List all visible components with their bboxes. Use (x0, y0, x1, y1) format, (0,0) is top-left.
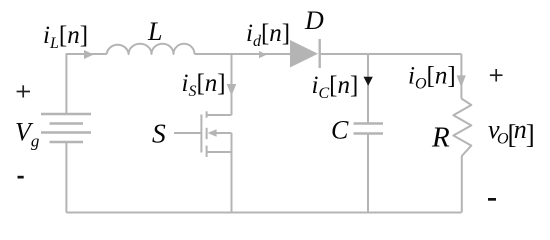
svg-text:iS[n]: iS[n] (182, 70, 226, 100)
wire MOSFET drain riser (231, 54, 233, 115)
drain stub (207, 114, 232, 116)
diode D cathode bar (319, 39, 321, 68)
svg-text:]: ] (526, 120, 535, 150)
svg-text:iO[n]: iO[n] (408, 63, 456, 93)
battery V_g plates (41, 114, 91, 142)
gate bar (200, 115, 202, 153)
wire capacitor top riser (367, 54, 369, 124)
svg-text:id[n]: id[n] (246, 20, 290, 50)
capacitor C plates (354, 124, 384, 134)
arrow current i_S (down) (227, 84, 237, 96)
polarity plus right (490, 69, 503, 82)
svg-text:iL[n]: iL[n] (43, 22, 88, 52)
wire inductor to diode anode (195, 53, 291, 55)
svg-text:R: R (431, 121, 450, 153)
arrow current i_L (right) (84, 50, 94, 59)
wire resistor top riser (460, 54, 462, 99)
resistor R zigzag (453, 99, 471, 213)
source channel tick (206, 146, 208, 157)
svg-text:D: D (304, 6, 324, 35)
svg-text:iC[n]: iC[n] (312, 72, 359, 102)
diode D triangle (290, 40, 318, 68)
wire capacitor bottom riser (367, 134, 369, 213)
wire battery minus terminal down to bottom rail (65, 142, 67, 213)
svg-text:S: S (152, 118, 166, 149)
polarity plus left (17, 85, 30, 97)
body channel tick (206, 128, 208, 139)
wire MOSFET source down to bottom rail (231, 133, 233, 213)
arrow current i_d (right) (259, 51, 267, 58)
drain channel tick (206, 111, 208, 117)
arrow current i_C (down, black) (364, 77, 373, 86)
gate lead wire (174, 132, 201, 134)
wire diode cathode to resistor top corner (320, 53, 462, 55)
inductor L (107, 44, 195, 54)
polarity minus left (18, 176, 24, 179)
wire battery plus terminal to inductor (top-left) (66, 54, 106, 114)
MOSFET S symbol (174, 111, 232, 157)
arrow current i_O (down) (457, 75, 466, 87)
svg-text:Vg: Vg (15, 117, 39, 150)
MOSFET body arrow (left) (208, 129, 217, 136)
body stub (216, 132, 232, 134)
source stub (207, 151, 232, 153)
svg-text:C: C (331, 116, 349, 145)
wire bottom rail (66, 212, 461, 214)
polarity minus right (488, 198, 496, 201)
svg-text:L: L (147, 17, 162, 46)
